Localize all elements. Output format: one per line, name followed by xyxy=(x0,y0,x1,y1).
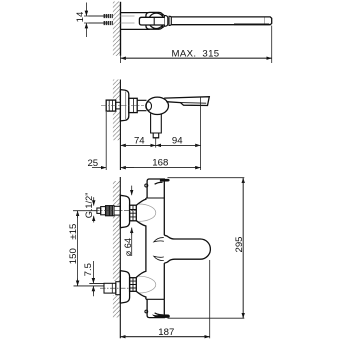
svg-text:⌀ 64: ⌀ 64 xyxy=(123,238,133,256)
svg-text:168: 168 xyxy=(152,158,168,169)
svg-text:94: 94 xyxy=(172,135,183,146)
svg-text:±15: ±15 xyxy=(68,224,79,240)
svg-text:187: 187 xyxy=(158,327,174,338)
svg-text:150: 150 xyxy=(68,248,79,264)
svg-text:25: 25 xyxy=(87,158,98,169)
svg-text:295: 295 xyxy=(234,236,245,252)
svg-text:14: 14 xyxy=(75,11,86,22)
svg-text:7.5: 7.5 xyxy=(83,263,94,276)
svg-text:74: 74 xyxy=(134,135,145,146)
svg-text:MAX. 315: MAX. 315 xyxy=(172,48,220,59)
svg-text:G.1/2”: G.1/2” xyxy=(84,193,94,219)
